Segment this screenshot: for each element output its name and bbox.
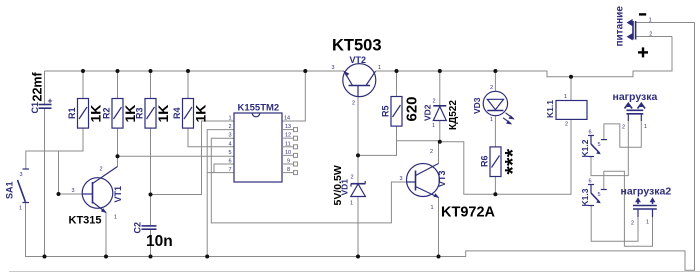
diode VD2 KD522 — [423, 99, 460, 131]
svg-text:VT1: VT1 — [113, 186, 123, 203]
transistor VT2 KT503 — [332, 37, 382, 107]
svg-text:7: 7 — [229, 167, 232, 173]
wire VT3 collector — [438, 142, 440, 164]
junction at 396.5,71 — [395, 69, 399, 73]
svg-text:5: 5 — [598, 192, 601, 198]
zener diode VD1 — [332, 165, 365, 206]
svg-text:1: 1 — [229, 116, 232, 122]
wire nagruzka2 pin2 to K1.3 bottom — [591, 206, 638, 242]
svg-text:14: 14 — [284, 116, 290, 122]
svg-text:K1.1: K1.1 — [545, 100, 555, 118]
wire R5 bottom to VD2 node — [397, 140, 440, 142]
svg-text:1: 1 — [19, 206, 22, 212]
wire IC pin14 to rail — [282, 71, 305, 121]
wire VT1 base — [59, 151, 84, 194]
svg-text:питание: питание — [615, 6, 626, 47]
wire R5 top — [396, 71, 398, 97]
junction at 150.5,71 — [149, 69, 153, 73]
svg-text:R4: R4 — [172, 107, 182, 119]
junction at 305.3,71 — [303, 69, 307, 73]
svg-text:R3: R3 — [135, 107, 145, 119]
node dot VD2 / VT3 collector — [438, 140, 442, 144]
resistor R4 — [172, 99, 209, 129]
svg-text:R1: R1 — [67, 107, 77, 119]
svg-text:VD1: VD1 — [340, 179, 350, 196]
svg-text:10n: 10n — [146, 233, 173, 250]
node dot VT1 collector / R2 / pin5 — [116, 154, 120, 158]
wire R3 bottom to C2 node — [150, 128, 152, 194]
resistor R3 — [135, 99, 172, 129]
capacitor C2 — [133, 222, 173, 250]
svg-text:R5: R5 — [381, 105, 391, 117]
svg-text:3: 3 — [332, 65, 335, 71]
svg-text:22mf: 22mf — [31, 71, 45, 101]
node dot C2 / R3 / pin1 — [149, 193, 153, 197]
svg-text:KT503: KT503 — [332, 37, 382, 55]
wire K1.1 top — [570, 77, 572, 101]
junction at 106,256.5 — [104, 255, 108, 259]
wire VT2 base column — [357, 97, 359, 156]
wire R6 bottom — [494, 176, 496, 194]
svg-text:6: 6 — [229, 159, 232, 165]
svg-text:K155TM2: K155TM2 — [238, 103, 280, 114]
svg-text:1: 1 — [564, 94, 567, 100]
svg-text:3: 3 — [20, 172, 23, 178]
wire R4 top — [187, 71, 189, 99]
wire nagruzka pin2 to K1.2 bottom — [591, 121, 628, 176]
resistor R2 — [102, 99, 139, 129]
wire frame border bottom — [9, 271, 700, 273]
junction at 439.8,71 — [438, 69, 442, 73]
svg-text:2: 2 — [631, 221, 634, 227]
wire VD3 bottom to R6 — [494, 116, 496, 147]
svg-text:5: 5 — [229, 150, 232, 156]
wire R2 bottom to node — [117, 128, 119, 156]
svg-text:КД522: КД522 — [448, 100, 459, 130]
svg-text:4: 4 — [229, 141, 232, 147]
wire C2 bottom to ground — [150, 229, 152, 256]
wire IC pin6 — [214, 164, 234, 173]
wire VT1 collector — [117, 156, 119, 166]
svg-text:SA1: SA1 — [5, 181, 15, 199]
wire VD1 bottom to ground — [357, 197, 359, 257]
connector X1 pitanie (power) — [615, 6, 653, 58]
svg-text:нагрузка: нагрузка — [613, 91, 658, 103]
wire C2 node to IC pin1 — [151, 121, 235, 195]
wire C1 bottom to ground rail — [44, 108, 46, 256]
switch SA1 — [5, 169, 30, 212]
wire IC pin3 to VT3 base node — [211, 138, 407, 223]
wire R1 top — [82, 71, 84, 99]
svg-text:6: 6 — [589, 130, 592, 136]
node dots ground rail — [43, 255, 441, 259]
transistor VT3 KT972A — [400, 149, 496, 221]
node dot R6 bottom — [493, 192, 497, 196]
svg-text:2: 2 — [229, 124, 232, 130]
wire VD1 node to R5 bottom — [358, 126, 397, 155]
wire IC pin2 to ground — [207, 130, 234, 257]
resistor R1 — [67, 99, 104, 129]
wire VD3 top — [494, 71, 496, 91]
node dot VD1 / VT2 base — [356, 153, 360, 157]
wire VT3 emitter to ground — [438, 198, 440, 257]
svg-text:VT3: VT3 — [437, 170, 447, 187]
svg-text:1: 1 — [350, 201, 353, 207]
junction at 150.5,256.5 — [149, 255, 153, 259]
LED VD3 — [472, 85, 515, 125]
svg-text:620: 620 — [404, 96, 421, 121]
wire top rail left section — [45, 70, 345, 72]
IC U1 K155TM2 — [229, 103, 292, 183]
connector X2 nagruzka (load) — [613, 91, 658, 131]
svg-text:R6: R6 — [480, 155, 490, 167]
svg-text:***: *** — [502, 148, 525, 174]
svg-text:K1.3: K1.3 — [580, 188, 590, 206]
svg-text:VT2: VT2 — [350, 55, 367, 65]
wire VD2 node to relay node — [440, 119, 571, 194]
svg-text:1: 1 — [378, 65, 381, 71]
svg-text:2: 2 — [490, 85, 493, 91]
transistor VT1 KT315 — [69, 167, 124, 227]
junction at 207.2,256.5 — [205, 255, 209, 259]
svg-text:2: 2 — [565, 122, 568, 128]
svg-text:2: 2 — [433, 99, 436, 105]
svg-text:K1.2: K1.2 — [580, 139, 590, 157]
wire power pin1 — [636, 22, 695, 24]
svg-text:+: + — [48, 96, 53, 106]
wire top rail right section with step to power — [376, 37, 673, 77]
svg-text:2: 2 — [352, 101, 355, 107]
svg-text:6: 6 — [589, 179, 592, 185]
svg-text:1: 1 — [490, 117, 493, 123]
wire R4 bottom to IC pin4 — [188, 128, 234, 147]
wire IC pin5 from VT1 collector node — [118, 155, 235, 157]
wire VD2 bottom to node — [439, 121, 441, 142]
resistor R5 — [381, 96, 421, 126]
svg-text:1: 1 — [649, 18, 652, 24]
resistor R6 — [480, 147, 525, 177]
wire C1 column — [44, 71, 46, 105]
wire K1.3 pin5 to nagruzka2 pin1 — [604, 171, 653, 246]
capacitor C1 — [30, 71, 53, 113]
svg-text:1: 1 — [114, 215, 117, 221]
relay coil K1.1 — [545, 94, 587, 128]
svg-text:KT315: KT315 — [69, 215, 102, 227]
node dots top rail — [81, 69, 573, 79]
svg-text:5: 5 — [598, 142, 601, 148]
junction at 495.4,71 — [493, 69, 497, 73]
junction at 83,71 — [81, 69, 85, 73]
wire VT1 emitter to ground — [105, 213, 107, 257]
wire C2 top — [150, 195, 152, 226]
svg-text:VD2: VD2 — [423, 104, 433, 121]
wire R3 top — [150, 71, 152, 99]
svg-text:3: 3 — [229, 133, 232, 139]
svg-text:1K: 1K — [193, 105, 209, 123]
svg-text:1K: 1K — [155, 105, 171, 123]
svg-text:R2: R2 — [102, 107, 112, 119]
svg-text:2: 2 — [622, 125, 625, 131]
junction at 117.5,71 — [116, 69, 120, 73]
junction at 571,76.8 — [569, 75, 573, 79]
svg-text:2: 2 — [100, 167, 103, 173]
svg-text:C2: C2 — [133, 222, 143, 234]
svg-text:2: 2 — [649, 32, 652, 38]
connector X3 nagruzka2 (load 2) — [621, 186, 672, 227]
wire IC pin7 — [207, 172, 234, 174]
svg-text:C1: C1 — [30, 102, 40, 114]
wire VD1 top — [357, 155, 359, 183]
node dot VT1 base — [57, 192, 61, 196]
svg-text:1: 1 — [646, 220, 649, 226]
svg-text:2: 2 — [430, 149, 433, 155]
svg-text:KT972A: KT972A — [441, 205, 496, 221]
svg-text:нагрузка2: нагрузка2 — [621, 186, 672, 198]
wire power pin2 — [636, 36, 672, 38]
junction at 358,256.5 — [356, 255, 360, 259]
wire SA1 top connection — [26, 128, 83, 169]
svg-text:1: 1 — [644, 124, 647, 130]
relay contact K1.3 — [580, 179, 607, 207]
wire R2 top — [117, 71, 119, 99]
junction at 188,71 — [186, 69, 190, 73]
svg-text:1: 1 — [432, 123, 435, 129]
svg-text:1: 1 — [431, 205, 434, 211]
svg-text:2: 2 — [351, 175, 354, 181]
relay contact K1.2 — [580, 130, 607, 158]
svg-text:3: 3 — [72, 188, 75, 194]
wire K1.2 pin5 to nagruzka pin1 — [604, 121, 641, 147]
junction at 44.5,256.5 — [43, 255, 47, 259]
wire VD2 top — [439, 71, 441, 106]
svg-text:VD3: VD3 — [472, 97, 482, 114]
junction at 438.5,256.5 — [437, 255, 441, 259]
svg-text:3: 3 — [400, 176, 403, 182]
IC right NC pin stubs with pads — [282, 128, 298, 175]
